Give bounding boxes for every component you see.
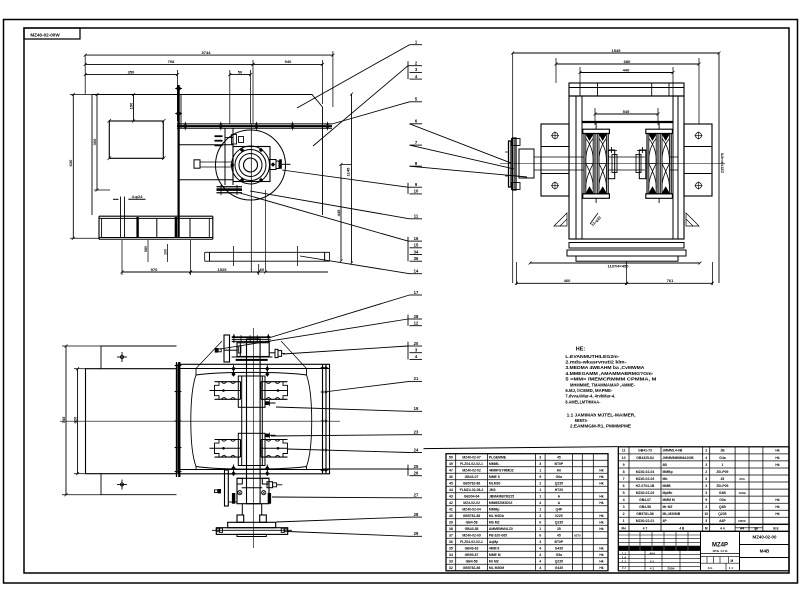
svg-text:Hk: Hk: [775, 456, 779, 460]
svg-text:6: 6: [539, 520, 541, 524]
svg-text:FH: FH: [621, 527, 626, 531]
svg-text:GB4325-84: GB4325-84: [636, 456, 654, 460]
svg-text:2.mds-wkasrvnuti2 klm-: 2.mds-wkasrvnuti2 klm-: [565, 360, 626, 366]
svg-text:JM3: JM3: [489, 488, 496, 492]
svg-text:25: 25: [414, 464, 419, 469]
svg-text:Q235: Q235: [555, 481, 563, 485]
svg-text:970: 970: [151, 267, 158, 272]
svg-text:4: 4: [539, 501, 541, 505]
plan view: bearing rings: [232, 146, 270, 184]
svg-text:4: 4: [623, 498, 625, 502]
front view: top bracket diagonal brace: [196, 341, 307, 369]
svg-text:1107/4=450: 1107/4=450: [607, 263, 629, 268]
front view: motor body: [86, 369, 177, 474]
svg-text:1: 1: [623, 519, 625, 523]
svg-text:545: 545: [623, 109, 630, 114]
front view: bell flange bolt diamonds: [231, 366, 235, 377]
svg-text:GB99-87: GB99-87: [465, 553, 479, 557]
svg-text:MZ40-02-00W: MZ40-02-00W: [30, 33, 60, 38]
svg-text:40: 40: [449, 514, 453, 518]
front view: motor eyebolt marks: [117, 356, 127, 358]
svg-text:MMB: MMB: [663, 484, 672, 488]
title block stage/scale row: [701, 552, 740, 554]
svg-text:MEMT4-: MEMT4-: [575, 418, 588, 424]
svg-text:GB43-07: GB43-07: [465, 475, 479, 479]
svg-text:MHMMME, TMAMMAMAP ,AMME-: MHMMME, TMAMMAMAP ,AMME-: [570, 382, 635, 388]
front view: left flange line with bolts: [176, 362, 178, 477]
svg-text:ML M3Db: ML M3Db: [489, 514, 504, 518]
svg-text:27: 27: [414, 493, 419, 498]
plan view: 4-d24 label: [113, 198, 119, 200]
svg-text:MME M: MME M: [489, 553, 501, 557]
svg-text:3: 3: [705, 491, 707, 495]
plan view: left dimension 630: [72, 95, 74, 239]
plan view: small rotated dims 580 / 100: [147, 240, 149, 262]
svg-text:Hk: Hk: [599, 494, 603, 498]
svg-text:28: 28: [414, 314, 419, 319]
side view: bottom dim row 460 / 761: [626, 261, 628, 285]
svg-text:Mb MZ: Mb MZ: [489, 520, 500, 524]
side view: shaft: [500, 163, 725, 165]
plan view: housing opening circle: [216, 130, 286, 200]
svg-text:Hk: Hk: [775, 449, 779, 453]
svg-text:15: 15: [414, 243, 419, 248]
top-left drawing number box: [24, 28, 80, 39]
svg-text:3: 3: [539, 462, 541, 466]
svg-text:680: 680: [624, 59, 631, 64]
svg-text:4 7: 4 7: [643, 527, 648, 531]
svg-text:3.MEDMA 4WEAHM ba ,CvMWMA: 3.MEDMA 4WEAHM ba ,CvMWMA: [565, 365, 645, 371]
svg-text:9: 9: [539, 475, 541, 479]
svg-text:11: 11: [414, 214, 419, 219]
svg-text:FLZ04-02-02-1: FLZ04-02-02-1: [460, 462, 483, 466]
plan view: shaft end with nut: [270, 160, 277, 170]
svg-text:JMMMMMMMA0GB: JMMMMMMMA0GB: [663, 456, 695, 460]
plan view: left key block: [194, 160, 200, 168]
svg-text:26: 26: [414, 471, 419, 476]
svg-text:17: 17: [414, 290, 419, 295]
svg-text:3744: 3744: [202, 50, 212, 55]
svg-text:MMML: MMML: [489, 462, 500, 466]
svg-text:MZ40-02-01: MZ40-02-01: [636, 519, 655, 523]
svg-text:M: M: [705, 527, 708, 531]
svg-text:MZ40-02-04: MZ40-02-04: [636, 470, 655, 474]
svg-text:Hk: Hk: [599, 546, 603, 550]
plan view: bottom dimension row 970 / 1525 / 60: [121, 240, 123, 275]
svg-text:A4: A4: [740, 527, 744, 531]
svg-text:39: 39: [449, 520, 453, 524]
svg-text:1: 1: [721, 463, 723, 467]
side view: inner dimension 545: [594, 108, 596, 125]
plan view: top dimension row 3744: [84, 55, 86, 94]
svg-text:1 1: 1 1: [729, 566, 734, 570]
svg-text:Q235: Q235: [555, 520, 563, 524]
svg-text:4.MMEGAMM ,AMAMMABRMG?Om-: 4.MMEGAMM ,AMAMMABRMG?Om-: [565, 371, 653, 377]
svg-text:JB: JB: [720, 449, 725, 453]
side view: dimension 680: [555, 58, 557, 83]
svg-text:620: 620: [72, 416, 77, 423]
svg-text:PLGEMME: PLGEMME: [489, 455, 507, 459]
side view: 12-d22 hole label: [590, 213, 598, 224]
svg-text:G435: G435: [555, 546, 563, 550]
svg-text:1: 1: [539, 494, 541, 498]
svg-text:14: 14: [414, 269, 419, 274]
plan view: right dimensions 1145 / 445: [351, 94, 353, 263]
svg-text:16: 16: [414, 236, 419, 241]
svg-text:Mr MZ: Mr MZ: [663, 505, 673, 509]
plan view: small bolt fittings under strip: [215, 135, 223, 137]
plan view: bearing flange square: [233, 147, 270, 182]
svg-text:Q4P: Q4P: [555, 507, 563, 511]
svg-text:GB5782-86: GB5782-86: [463, 566, 481, 570]
svg-text:N35Z: N35Z: [738, 519, 746, 523]
svg-text:FLZ04-02-02-1: FLZ04-02-02-1: [460, 540, 483, 544]
svg-text:MZ40-02-00: MZ40-02-00: [753, 535, 777, 540]
svg-text:Z0A: Z0A: [739, 477, 746, 481]
BOM left table: [446, 454, 608, 571]
svg-text:A0: A0: [557, 468, 561, 472]
svg-text:Hk: Hk: [599, 514, 603, 518]
svg-text:HT20: HT20: [555, 488, 563, 492]
svg-text:7: 7: [623, 477, 625, 481]
svg-text:43: 43: [449, 494, 453, 498]
svg-text:9: 9: [623, 463, 625, 467]
svg-text:4 4: 4 4: [720, 527, 725, 531]
svg-text:G5a: G5a: [556, 553, 563, 557]
svg-text:Q4B: Q4B: [719, 505, 727, 509]
front view: motor lower step: [101, 474, 177, 495]
svg-text:32: 32: [449, 566, 453, 570]
svg-text:46: 46: [449, 475, 453, 479]
svg-text:HE:: HE:: [576, 347, 586, 353]
svg-text:MLM30: MLM30: [489, 481, 501, 485]
side view: bottom dim 1107/4=450: [530, 262, 700, 264]
svg-text:1P4L 14 11: 1P4L 14 11: [712, 549, 728, 553]
svg-text:42: 42: [449, 501, 453, 505]
plan view: center mark lines on base: [232, 246, 234, 266]
svg-text:Q235: Q235: [718, 512, 726, 516]
svg-text:MZ4-02-02: MZ4-02-02: [463, 501, 480, 505]
svg-text:12: 12: [414, 321, 419, 326]
title block signature grid: [618, 534, 700, 536]
svg-text:124B: 124B: [738, 491, 746, 495]
svg-text:ML,M30MB: ML,M30MB: [663, 512, 681, 516]
plan view: motor slide rails: [179, 144, 233, 146]
svg-text:3: 3: [705, 519, 707, 523]
svg-text:2: 2: [539, 481, 541, 485]
svg-text:8: 8: [623, 470, 625, 474]
svg-text:A04: A04: [649, 552, 655, 556]
svg-text:Hk: Hk: [775, 463, 779, 467]
svg-text:19: 19: [414, 406, 419, 411]
svg-text:FLMZ4-02-08-2: FLMZ4-02-08-2: [460, 488, 484, 492]
svg-text:Hk: Hk: [775, 505, 779, 509]
title block drawing number: [740, 544, 790, 546]
svg-text:45: 45: [557, 533, 561, 537]
side view: dimension 440: [579, 67, 581, 83]
svg-text:MZ40-02-07: MZ40-02-07: [462, 455, 481, 459]
svg-text:Hk: Hk: [599, 566, 603, 570]
svg-text:GB5781-86: GB5781-86: [463, 514, 481, 518]
svg-text:Z0LP09: Z0LP09: [716, 484, 728, 488]
svg-text:AMMEMM4LZ0: AMMEMM4LZ0: [489, 527, 513, 531]
plan view: left dimension 300: [96, 95, 98, 191]
svg-text:Q235: Q235: [555, 559, 563, 563]
svg-text:MMMp: MMMp: [489, 507, 500, 511]
svg-text:4MMPGYMMDZ: 4MMPGYMMDZ: [489, 468, 514, 472]
svg-text:GB4-58: GB4-58: [466, 520, 478, 524]
svg-text:445: 445: [336, 209, 341, 216]
svg-text:440: 440: [623, 67, 630, 72]
svg-text:4: 4: [539, 566, 541, 570]
svg-text:8.AMELLMTHMAA-: 8.AMELLMTHMAA-: [565, 399, 600, 405]
plan view: lower-right base channel: [205, 252, 330, 261]
front view: right grease fitting: [267, 482, 273, 488]
svg-text:4: 4: [539, 553, 541, 557]
svg-text:50: 50: [449, 455, 453, 459]
svg-text:G4B: G4B: [719, 491, 727, 495]
plan view: dimension 150 (motor top): [133, 95, 135, 122]
side view: left impeller: [584, 134, 595, 194]
svg-text:G0a: G0a: [556, 475, 563, 479]
svg-text:29: 29: [414, 531, 419, 536]
svg-text:MpMb: MpMb: [663, 491, 673, 495]
svg-text:4-φ24: 4-φ24: [132, 194, 144, 199]
svg-text:Hk: Hk: [599, 527, 603, 531]
side view: base plates: [567, 250, 686, 256]
svg-text:24: 24: [754, 527, 758, 531]
svg-text:20: 20: [414, 341, 419, 346]
front view: top bearing bracket: [224, 335, 230, 362]
svg-text:2357/4=470: 2357/4=470: [721, 153, 725, 173]
BOM header row: [618, 524, 789, 531]
svg-text:23: 23: [414, 430, 419, 435]
svg-text:28: 28: [414, 512, 419, 517]
svg-text:708: 708: [168, 59, 175, 64]
svg-text:Z0LP09: Z0LP09: [716, 470, 728, 474]
svg-text:24: 24: [414, 447, 419, 452]
svg-text:GB41-73: GB41-73: [638, 449, 652, 453]
svg-text:35: 35: [449, 546, 453, 550]
svg-text:Hk: Hk: [599, 481, 603, 485]
svg-text:4: 4: [539, 559, 541, 563]
plan view: motor rectangle: [109, 121, 163, 158]
front view: hub clamp bolts: [265, 401, 269, 405]
svg-text:45: 45: [557, 455, 561, 459]
front view: motor upper step: [101, 346, 177, 369]
svg-text:AqMp: AqMp: [489, 540, 498, 544]
front view: bottom bearing assembly: [225, 470, 229, 506]
svg-text:47: 47: [449, 468, 453, 472]
side view: left mounting bracket: [541, 124, 569, 196]
svg-text:GB4-58: GB4-58: [639, 505, 651, 509]
svg-text:3: 3: [539, 540, 541, 544]
svg-text:745: 745: [61, 416, 66, 423]
svg-text:3: 3: [705, 484, 707, 488]
svg-text:GB4-07: GB4-07: [639, 498, 651, 502]
svg-text:50: 50: [238, 69, 243, 74]
svg-text:2: 2: [705, 449, 707, 453]
svg-text:36: 36: [449, 540, 453, 544]
svg-text:A b: A b: [708, 566, 713, 570]
svg-text:Z00A: Z00A: [667, 567, 675, 571]
svg-text:4: 4: [705, 456, 707, 460]
svg-text:3: 3: [705, 477, 707, 481]
svg-text:GB5782-86: GB5782-86: [463, 481, 481, 485]
svg-text:GB43-58: GB43-58: [465, 527, 479, 531]
plan view: flange bolts on bearing circle: [240, 148, 244, 152]
svg-text:L.EVANMUTHILEG2m-: L.EVANMUTHILEG2m-: [565, 354, 619, 360]
svg-text:PB 620-065: PB 620-065: [489, 533, 507, 537]
title block outline: [618, 531, 789, 570]
front view: right flange line with bolts: [322, 364, 324, 474]
svg-text:Hk: Hk: [775, 512, 779, 516]
svg-text:6: 6: [623, 484, 625, 488]
svg-text:MZ40-02-03: MZ40-02-03: [636, 477, 655, 481]
svg-text:1.1: 1.1: [622, 559, 627, 563]
svg-text:630: 630: [68, 159, 73, 166]
plan view: bottom clamp bars: [217, 186, 243, 188]
svg-text:JBMAMB7M225: JBMAMB7M225: [489, 494, 514, 498]
svg-text:38: 38: [449, 527, 453, 531]
plan view: base plate outline: [92, 95, 323, 216]
front view: left dim 745: [65, 346, 67, 495]
svg-text:60: 60: [260, 267, 265, 272]
side view: liner thick line: [582, 121, 673, 123]
svg-text:HZ-0704-1B: HZ-0704-1B: [636, 484, 655, 488]
side view: top cover plate: [569, 83, 684, 96]
svg-text:300: 300: [92, 138, 97, 145]
leader line to parts table: [424, 447, 618, 449]
svg-text:460: 460: [564, 278, 571, 283]
svg-text:2: 2: [623, 512, 625, 516]
svg-text:1: 1: [539, 468, 541, 472]
svg-text:MZ40-02-04: MZ40-02-04: [462, 507, 481, 511]
svg-text:761: 761: [667, 278, 674, 283]
front view: lower impeller wings: [215, 439, 241, 441]
svg-text:5: 5: [623, 491, 625, 495]
svg-text:2.EAMMGM-R1, PMMMPME: 2.EAMMGM-R1, PMMMPME: [570, 424, 632, 430]
svg-text:4 1: 4 1: [650, 567, 655, 571]
svg-text:2: 2: [705, 470, 707, 474]
front view: impeller hub sleeve: [241, 376, 243, 467]
svg-text:Hk: Hk: [599, 475, 603, 479]
side view: housing bottom flange: [569, 238, 684, 240]
svg-text:6275: 6275: [574, 533, 581, 537]
svg-text:36: 36: [414, 256, 419, 261]
svg-text:1545: 1545: [612, 48, 622, 53]
svg-text:1.1 JAMIMAh MJTEL-MAIMER,: 1.1 JAMIMAh MJTEL-MAIMER,: [567, 412, 637, 418]
svg-text:4: 4: [539, 546, 541, 550]
plan view: slot marks on plate: [136, 217, 138, 238]
svg-text:33: 33: [449, 559, 453, 563]
svg-text:MZ40-02-02: MZ40-02-02: [462, 468, 481, 472]
svg-text:BT0P: BT0P: [555, 540, 564, 544]
svg-text:ML M30M: ML M30M: [489, 566, 504, 570]
plan view: dimension row 350 / 50: [176, 70, 178, 121]
svg-text:5 =MM= /MEMCRMMM CPMMA, M: 5 =MM= /MEMCRMMM CPMMA, M: [565, 377, 656, 383]
side view: right impeller: [647, 134, 658, 194]
front view: bottom flange: [241, 504, 243, 515]
svg-text:45: 45: [449, 481, 453, 485]
svg-text:6: 6: [539, 533, 541, 537]
svg-text:MMBp: MMBp: [663, 470, 673, 474]
svg-text:4 1: 4 1: [650, 560, 655, 564]
svg-text:Mr MZ: Mr MZ: [489, 559, 499, 563]
plan view: dimension row 708 / 940: [252, 60, 254, 124]
svg-text:100: 100: [164, 249, 168, 255]
svg-text:10: 10: [622, 456, 626, 460]
plan view: left flange thick line with bolts: [177, 85, 179, 238]
svg-text:4B: 4B: [663, 463, 668, 467]
front view: left dim 620: [77, 369, 79, 474]
svg-text:MZ40-02-09: MZ40-02-09: [462, 533, 481, 537]
plan view: 4-hole marks left: [120, 197, 122, 238]
svg-text:1525: 1525: [218, 267, 228, 272]
side view: right mounting bracket: [684, 124, 712, 196]
svg-text:1: 1: [539, 527, 541, 531]
svg-text:G4a: G4a: [719, 456, 726, 460]
svg-text:GB43-63: GB43-63: [465, 546, 479, 550]
svg-text:Hk: Hk: [599, 501, 603, 505]
svg-text:3: 3: [705, 463, 707, 467]
side view: left gusset: [554, 213, 567, 226]
svg-text:7.dvvaAMar-4, 4rvkMar-4.: 7.dvvaAMar-4, 4rvkMar-4.: [565, 394, 615, 400]
svg-text:1: 1: [539, 488, 541, 492]
plan view: lower-left support plate: [99, 215, 213, 217]
svg-text:Hk: Hk: [599, 553, 603, 557]
front view: housing box: [178, 364, 330, 474]
svg-text:4 B: 4 B: [679, 527, 685, 531]
svg-text:11: 11: [622, 449, 626, 453]
svg-text:M: M: [730, 559, 733, 563]
svg-text:A4P: A4P: [719, 519, 726, 523]
svg-text:9: 9: [705, 498, 707, 502]
svg-text:3: 3: [623, 505, 625, 509]
svg-text:3: 3: [539, 455, 541, 459]
svg-text:10: 10: [704, 512, 708, 516]
svg-text:MME 8: MME 8: [489, 475, 500, 479]
svg-text:JMMML4-0B: JMMML4-0B: [663, 449, 683, 453]
svg-text:41: 41: [449, 507, 453, 511]
side view: coupling assembly: [509, 141, 512, 187]
svg-text:940: 940: [285, 59, 292, 64]
svg-text:37: 37: [449, 533, 453, 537]
svg-text:4P: 4P: [663, 519, 668, 523]
BOM right table: [618, 447, 789, 525]
plan view: motor rail strip (3 lines) with bolts: [177, 123, 332, 125]
svg-text:34: 34: [449, 553, 453, 557]
svg-text:BT0P: BT0P: [555, 462, 564, 466]
front view: upper hub block: [238, 376, 265, 407]
svg-text:MMM M: MMM M: [663, 498, 675, 502]
svg-text:44: 44: [449, 488, 453, 492]
svg-text:0225: 0225: [555, 514, 563, 518]
svg-text:MMM5ZM3D0Z: MMM5ZM3D0Z: [489, 501, 513, 505]
svg-text:1145: 1145: [346, 167, 351, 176]
front view: upper impeller wings: [215, 381, 241, 383]
side view: housing shell: [569, 96, 684, 239]
svg-text:GB5781-86: GB5781-86: [636, 512, 654, 516]
svg-text:580: 580: [144, 246, 148, 252]
svg-text:6.MJ, lrCEMD, MAPME-: 6.MJ, lrCEMD, MAPME-: [565, 388, 612, 394]
front view: lower hub block: [238, 433, 265, 465]
front view: vertical shaft: [247, 339, 261, 504]
svg-text:3: 3: [539, 514, 541, 518]
svg-text:34: 34: [414, 249, 419, 254]
side view: top dimension 1545: [512, 53, 514, 283]
front view: center lines: [60, 420, 340, 422]
